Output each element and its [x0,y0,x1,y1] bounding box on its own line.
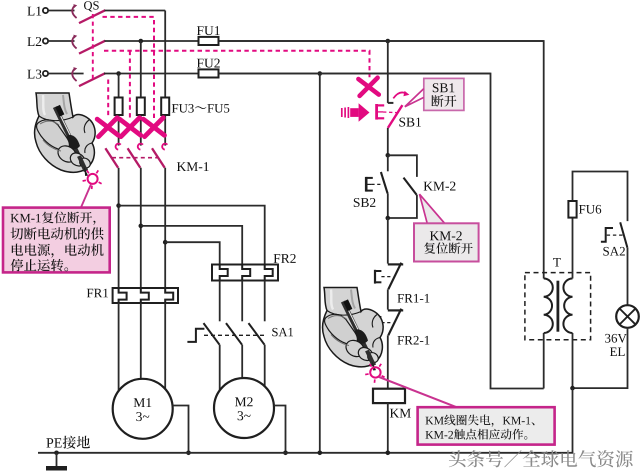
wire SB1 to parallel junction [387,128,389,155]
wire SA2 to lamp [627,248,629,306]
wire lamp branch top loop [573,172,628,279]
wire M2-branch from L3 tap [119,206,265,265]
callout pointer wedge SB1 [405,89,424,107]
wire motor M2 to PE line [274,406,286,453]
switch SA2 handle [601,228,623,242]
dashed trip branch to X mark 2 [129,51,131,119]
junction L2 phase tap [139,39,144,44]
node L1 terminal [27,7,48,16]
contactor KM-1 linkage dashed [112,157,158,159]
transformer T secondary winding [563,279,572,334]
pointer line ring2 to callout3 [379,377,457,407]
pushbutton SB2 blade [381,172,388,193]
fuse FU2 [197,59,220,78]
fuse FU5 [161,98,169,116]
pushbutton SB2 upper wire [387,155,389,171]
contactor KM-1 main contact blade [128,148,141,168]
wire L3 vertical down to FU3 [118,74,120,146]
fuse FU4 [137,98,145,116]
thermal relay FR2 heater box [212,254,296,281]
contactor KM-1 main contact fixed jaw [138,144,143,150]
highlight ring at KM coil wire [365,364,384,383]
thermal relay FR1 heater element [119,288,127,303]
switch QS pole 1 blade [79,10,105,23]
junction L3 phase tap [116,71,121,76]
wire FR2-1 to KM coil [387,335,389,388]
pushbutton SB1 actuator (magenta) [377,104,397,120]
wire phase L3 down to FR1 [118,168,120,288]
wire L2 FR1 to motor M1 [140,303,142,379]
X mark broken phase L1 [143,118,164,137]
switch SA1 blade [249,323,265,345]
X mark on trip line above SB1 [358,78,378,96]
label SB1 [399,118,421,127]
pushbutton SB2 lower wire [387,193,389,218]
thick push arrow at SB1 [342,103,370,121]
switch SA2 blade [620,222,627,247]
label FR2-1 [397,336,429,345]
junction M2-branch tap phase L2 [139,224,144,229]
pushbutton SB2 actuator [366,177,382,192]
label T [553,258,561,267]
transformer T core [557,281,560,332]
wire L3 to QS [48,73,83,75]
coil KM [373,389,411,418]
wire secondary to PE line [572,388,574,453]
wire motor M1 to PE line [173,406,189,453]
wire FR2 down to SA1 [219,281,221,322]
wire L2 from QS to FU1 [105,40,544,42]
pushbutton SB1 blade (opened, magenta) [388,105,403,128]
label FR1-1 [397,294,429,303]
wire secondary bottom [572,333,574,388]
switch QS pole 3 blade [79,73,105,86]
contactor KM-1 main contact blade [105,148,118,168]
label 36V EL [605,334,627,356]
ground symbol [46,453,67,471]
switch QS pole 2 opening arrow [72,35,77,49]
transformer T dashed boundary [525,273,591,340]
junction PE ground tap [54,451,59,456]
junction parallel bottom [386,216,391,221]
wire FR1-1 to FR2-1 [387,289,389,309]
label SA1 [272,328,293,336]
dashed trip line from QS pole3 to X mark 1 [107,80,109,119]
wire L1 vertical down to FU5 [164,11,166,146]
fuse FU6 [568,201,601,218]
switch SA1 blade [204,323,220,345]
junction control tap on FU2 line [318,71,323,76]
switch SA1 linkage dashed [204,334,265,336]
wire L2 vertical down to FU4 [140,41,142,146]
dashed trip line from QS pole1 to X mark 3 [103,17,155,118]
wire L1 to QS [48,10,74,12]
motor M2 [214,378,274,438]
wire KM coil to PE line [387,403,389,453]
thermal relay FR2 heater element [220,265,228,281]
contact KM-2 blade (open) [404,178,417,195]
wire lamp to secondary bottom [573,328,628,388]
callout box KM-2 复位断开 [414,194,479,261]
label KM-2 [424,182,456,191]
wire L1 FR1 to motor M1 [164,303,166,389]
wire phase L1 down to FR1 [164,168,166,288]
wire phase L2 down to FR1 [140,168,142,288]
thermal relay FR2 heater element [242,265,250,281]
junction M2-branch tap phase L1 [163,240,168,245]
switch QS label [84,1,99,11]
contact FR1-1 (NC) [375,263,403,290]
callout box SB1 断开 [424,78,464,110]
callout box KM coil explanation [418,407,555,444]
switch QS pole 2 blade [79,41,105,54]
thermal relay FR2 heater element [265,265,273,281]
wire SA1 to motor M2 [219,345,221,391]
wire M2-branch from L1 tap [165,242,220,264]
wire FU1 line right and down to transformer primary [219,41,544,279]
junction KM coil PE [386,451,391,456]
wire control left rail x320 [319,74,321,453]
callout box KM-1 explanation [3,208,110,273]
switch QS pole 3 opening arrow [72,67,77,81]
highlight ring at KM-1 [83,170,102,189]
wire FR2 down to SA1 [264,281,266,322]
junction M1 PE [186,451,191,456]
wire parallel branch top [388,155,417,177]
contactor KM-1 main contact blade [152,148,165,168]
label FU3~FU5 [172,104,229,113]
wire PE bottom line [38,452,573,454]
X mark broken phase L3 [97,118,118,137]
thermal relay FR1 heater box [87,288,178,303]
wire L1 from QS to corner [105,10,166,12]
label SB2 [354,198,376,207]
wire FU2 line down the right rail [219,74,544,389]
fuse FU1 [197,26,220,45]
wire M2-branch from L2 tap [141,226,242,265]
wire FR2 down to SA1 [241,281,243,322]
contactor KM-1 main contact fixed jaw [116,144,121,150]
fuse FU3 [115,98,123,116]
wire to FR1-1 [387,218,389,264]
wire L3 FR1 to motor M1 [118,303,120,391]
thermal relay FR1 heater element [141,288,149,303]
wire KM-2 branch bottom [388,195,417,218]
X mark broken phase L2 [120,118,141,137]
pointer line ring1 to callout1 [81,185,91,208]
wire L2 to QS [48,40,74,42]
node L2 terminal [27,37,48,46]
junction control left rail PE [318,451,323,456]
contactor KM-1 main contact fixed jaw [162,144,167,150]
switch SA1 blade [226,323,242,345]
junction M2-branch tap phase L3 [116,203,121,208]
hand illustration 1 (pointing at KM-1) [35,93,96,176]
junction secondary bottom [570,386,575,391]
label KM-1 [177,162,209,171]
motor M1 [113,379,173,439]
label SA2 [603,247,625,256]
SB1 opening curved arrow [393,91,409,99]
wire FU1 line down to SB1 [388,41,394,103]
lamp EL [616,305,639,328]
wire primary bottom to right rail [543,333,545,389]
contact FR2-1 (NC) [375,309,403,336]
dashed trip line from QS pole2 across top to SB1 [104,51,370,78]
hand illustration 2 (pointing at KM coil) [323,288,384,371]
junction control tap on FU1 line [386,39,391,44]
transformer T primary winding [544,279,553,334]
junction parallel top [386,153,391,158]
junction M2 PE [283,451,288,456]
switch QS pole 1 opening arrow [72,4,77,18]
wire L3 from QS to FU2 and corner [104,73,491,75]
label PE接地 [46,436,90,449]
switch SA1 handle [187,329,204,342]
thermal relay FR1 heater element [165,288,173,303]
watermark 头条号／全球电气资源 [449,450,633,467]
switch QS linkage dashed line [92,14,94,80]
node L3 terminal [27,70,48,79]
